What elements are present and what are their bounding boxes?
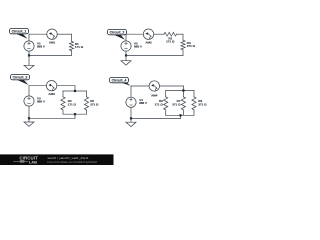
wire: c2 top left segment <box>126 33 143 35</box>
resistor R1 <box>69 41 83 50</box>
wire: c2 R2 to corner <box>177 33 184 35</box>
svg-text:AM4: AM4 <box>151 94 158 98</box>
junction: c3 ground node <box>28 117 30 119</box>
resistor R6 <box>155 97 168 110</box>
wire: c4 feed drop <box>182 86 184 91</box>
wire: c4 bottom <box>131 117 181 119</box>
svg-text:Circuit_4: Circuit_4 <box>112 78 127 82</box>
junction: c2 ground node <box>125 54 127 56</box>
resistor R7 <box>172 97 185 110</box>
junction: c4 top rail <box>182 89 184 91</box>
ground c2 <box>121 55 131 65</box>
wire: c4 R6 top stub <box>165 91 167 97</box>
wire: c1 bottom <box>29 54 72 56</box>
junction: c4 ground node <box>130 117 132 119</box>
wire: c3 bottom <box>29 117 75 119</box>
svg-text:AM2: AM2 <box>145 40 152 44</box>
wire: c2 bottom <box>126 54 183 56</box>
wire: c4 R6 bottom stub <box>165 110 167 115</box>
wire: c3 R5 bottom stub <box>86 110 88 114</box>
voltage source V4 <box>126 97 147 107</box>
ground c3 <box>24 118 34 126</box>
wire: c4 top rail <box>166 90 194 92</box>
resistor R5 <box>84 97 99 110</box>
resistor R4 <box>61 97 77 110</box>
svg-text:371 Ω: 371 Ω <box>198 102 207 106</box>
wire: c2 ammeter to R2 <box>154 33 164 35</box>
wire: c1 top left segment <box>29 33 47 35</box>
svg-text:271 Ω: 271 Ω <box>172 102 181 106</box>
svg-text:171 Ω: 171 Ω <box>68 102 77 106</box>
resistor R3 <box>181 40 196 50</box>
wire: c4 top left segment <box>131 85 149 87</box>
wire: c3 top rail <box>63 90 87 92</box>
svg-text:Circuit_1: Circuit_1 <box>12 29 27 33</box>
svg-text:Circuit_3: Circuit_3 <box>13 75 28 79</box>
svg-text:171 Ω: 171 Ω <box>75 45 84 49</box>
wire: c1 top right segment <box>57 33 71 35</box>
wire: c4 R8 bottom stub <box>193 110 195 115</box>
wire: c4 R8 top stub <box>193 91 195 97</box>
ground c1 <box>24 55 34 69</box>
wire: c3 R4 top stub <box>62 91 64 97</box>
svg-text:888 V: 888 V <box>37 100 45 104</box>
wire: c1 left stub above V1 <box>28 34 30 41</box>
wire: c3 top left segment <box>29 85 46 87</box>
junction: c1 ground node <box>28 54 30 56</box>
svg-text:http://circuitlab.com/c/ab9z13: http://circuitlab.com/c/ab9z13y9d4u8 <box>48 160 98 164</box>
ground c4 <box>126 118 136 126</box>
wire: c3 stub below V3 <box>28 106 30 118</box>
node flag Circuit_2 <box>108 29 127 39</box>
svg-text:171 Ω: 171 Ω <box>166 40 175 44</box>
wire: c2 right branch lower <box>182 50 184 56</box>
wire: c4 rail to bottom wire <box>180 115 182 118</box>
wire: c4 ammeter to feed <box>160 85 184 87</box>
wire: c3 stub above V3 <box>28 86 30 96</box>
ammeter AM4 <box>149 81 159 98</box>
wire: c3 R4 bottom stub <box>62 110 64 114</box>
svg-text:171 Ω: 171 Ω <box>155 102 164 106</box>
wire: c2 stub above V2 <box>125 34 127 41</box>
junction: c3 top rail <box>74 90 76 92</box>
junction: c4 bottom rail <box>179 114 181 116</box>
svg-text:271 Ω: 271 Ω <box>187 44 196 48</box>
resistor R8 <box>192 97 207 110</box>
wire: c2 right branch upper <box>182 34 184 40</box>
ammeter AM3 <box>46 81 56 96</box>
wire: c3 rail to bottom wire <box>74 114 76 118</box>
watermark bar <box>0 154 114 165</box>
svg-text:271 Ω: 271 Ω <box>90 102 99 106</box>
svg-text:888 V: 888 V <box>134 45 142 49</box>
wire: c4 stub below V4 <box>130 108 132 119</box>
wire: c4 stub above V4 <box>130 86 132 97</box>
wire: c4 R7 bottom stub <box>182 110 184 115</box>
svg-text:AM3: AM3 <box>48 92 55 96</box>
wire: c3 ammeter to network <box>57 85 75 87</box>
CircuitLab logo <box>14 156 39 165</box>
wire: c4 bottom rail <box>166 114 194 116</box>
voltage source V2 <box>121 41 142 51</box>
resistor R2 <box>164 32 177 43</box>
node flag Circuit_1 <box>10 28 29 38</box>
svg-text:AM1: AM1 <box>49 40 56 44</box>
svg-text:888 V: 888 V <box>139 101 147 105</box>
wire: c1 right branch upper <box>71 34 73 41</box>
wire: c1 right branch lower <box>71 51 73 56</box>
voltage source V3 <box>24 96 45 106</box>
junction: c3 bottom rail <box>74 113 76 115</box>
ammeter AM2 <box>143 29 153 44</box>
wire: c3 bottom rail <box>63 113 87 115</box>
svg-text:888 V: 888 V <box>37 45 45 49</box>
wire: c3 R5 top stub <box>86 91 88 97</box>
wire: c4 R7 top stub <box>182 91 184 97</box>
wire: c1 left stub below V1 <box>28 51 30 55</box>
ammeter AM1 <box>47 29 57 44</box>
wire: c2 stub below V2 <box>125 51 127 55</box>
voltage source V1 <box>24 41 45 51</box>
svg-text:LAB: LAB <box>29 160 37 165</box>
wire: c3 feed drop <box>74 86 76 91</box>
node flag Circuit_4 <box>110 77 131 85</box>
svg-text:Circuit_2: Circuit_2 <box>110 30 125 34</box>
node flag Circuit_3 <box>11 74 30 85</box>
